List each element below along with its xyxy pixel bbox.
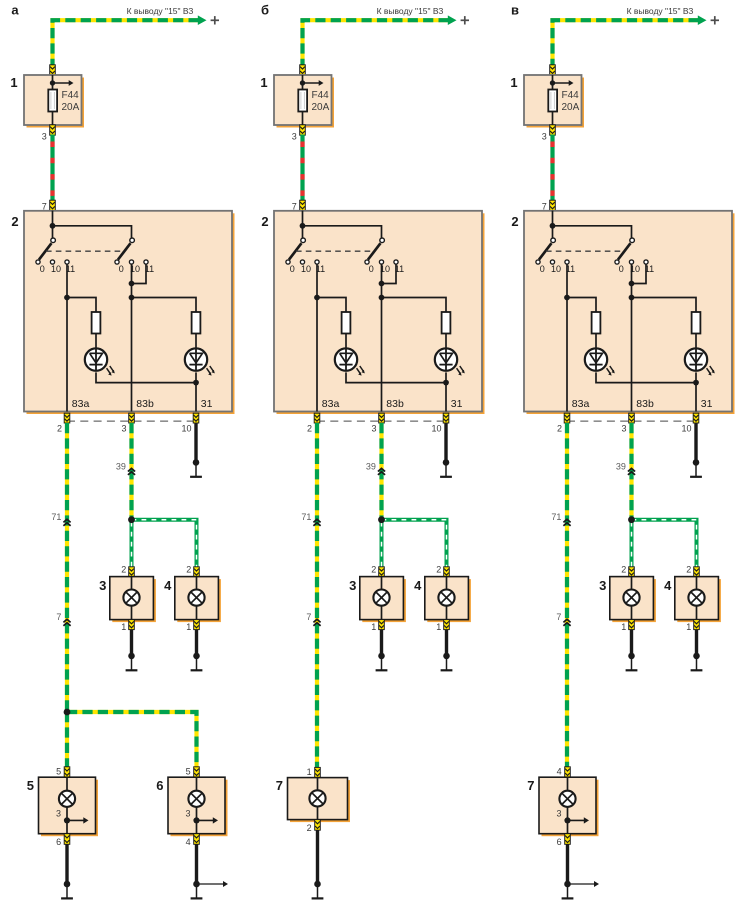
resistor R1 [92, 312, 101, 334]
wire junction to resistor R1 [567, 298, 596, 313]
wire to lamp 3 (green/white) [130, 522, 134, 568]
wire LED1 to node 31 [96, 372, 196, 382]
ground wire lamp 4 [445, 630, 448, 656]
lamp 5 bulb [59, 791, 75, 807]
svg-text:1: 1 [436, 622, 441, 632]
switch S2 pivot [630, 238, 635, 243]
wire to lamp 4 (green/white) [632, 520, 697, 568]
lamp box 5 [41, 780, 98, 837]
junction + tap arrow [50, 80, 55, 85]
junction node [50, 223, 56, 229]
node at pin31 wire [443, 380, 449, 386]
lamp 4 bulb [688, 590, 704, 606]
S2 contacts 0 10 11 [365, 260, 369, 264]
wire contact 10 (S2) down [631, 264, 633, 297]
ground lamp 3 [128, 653, 135, 660]
svg-text:3: 3 [56, 809, 61, 819]
switch unit box 2 [27, 213, 235, 414]
svg-text:7: 7 [42, 201, 47, 211]
svg-text:1: 1 [260, 75, 267, 90]
arrowhead to +15 [448, 15, 457, 25]
lamp box 3 [112, 579, 156, 622]
tap 3 of lamp 6 [193, 817, 199, 823]
svg-text:20A: 20A [562, 102, 580, 113]
wire through lamp 3 [131, 577, 133, 620]
svg-text:3: 3 [292, 132, 297, 142]
wire R1 to LED1 [345, 334, 347, 350]
svg-text:б: б [261, 3, 269, 18]
lamp box 7 [542, 780, 599, 837]
lamp 7 bulb [559, 791, 575, 807]
svg-text:1: 1 [121, 622, 126, 632]
wire to second switch [303, 226, 382, 243]
svg-text:3: 3 [185, 809, 190, 819]
junction to lamps 3/4 [628, 516, 635, 523]
ground wire lamp 3 [130, 630, 133, 656]
wire junction to resistor R2 [132, 298, 197, 313]
svg-text:4: 4 [557, 767, 562, 777]
lamp box 6 [171, 780, 228, 837]
junction S2-11 to S2-10 [629, 281, 635, 287]
svg-text:71: 71 [51, 512, 61, 522]
fuse F44 20A [48, 90, 57, 112]
plus terminal [461, 19, 469, 21]
wire contact 10 (S2) down [131, 264, 133, 297]
junction S2-11 to S2-10 [379, 281, 385, 287]
pin 83a [314, 413, 320, 423]
wire fuse to switch (green/red) [50, 135, 54, 202]
lamp 4 bulb [188, 590, 204, 606]
junction to lamps 3/4 [378, 516, 385, 523]
wire through lamp 5 [66, 777, 68, 834]
mechanical link (dashed) [546, 250, 623, 252]
S1 contacts 0 10 11 [536, 260, 540, 264]
switch S2 pivot [380, 238, 385, 243]
svg-text:4: 4 [414, 578, 422, 593]
svg-text:20A: 20A [312, 102, 330, 113]
pin (top of fuse box) [550, 65, 556, 75]
lamp box 3 [612, 579, 656, 622]
svg-text:10: 10 [51, 264, 61, 274]
wire 71 from pin 2 (yellow/green) [315, 423, 319, 768]
switch S1 lever [289, 243, 302, 259]
svg-text:3: 3 [42, 132, 47, 142]
node at pin31 wire [693, 380, 699, 386]
ground wire lamp 7 [566, 844, 569, 884]
S1 contacts 0 10 11 [36, 260, 40, 264]
plus terminal [711, 19, 719, 21]
LED1 indicator [585, 348, 607, 370]
junction to lamps 3/4 [128, 516, 135, 523]
ground wire lamp 5 [65, 844, 68, 884]
switch unit box 2 [527, 213, 735, 414]
svg-text:1: 1 [371, 622, 376, 632]
svg-text:10: 10 [551, 264, 561, 274]
svg-text:0: 0 [619, 264, 624, 274]
wire fuse to switch (green/red) [550, 135, 554, 202]
svg-text:1: 1 [10, 75, 17, 90]
pin 6 of lamp 7 [565, 834, 571, 845]
ground lamp 4 [693, 653, 700, 660]
svg-text:71: 71 [551, 512, 561, 522]
pin 2 of lamp 4 [194, 567, 200, 577]
wire fuse to pin 3 [302, 112, 304, 126]
svg-text:7: 7 [56, 612, 61, 622]
wire through lamp 4 [696, 577, 698, 620]
svg-text:2: 2 [686, 565, 691, 575]
svg-text:2: 2 [57, 423, 62, 433]
svg-text:7: 7 [556, 612, 561, 622]
svg-text:3: 3 [371, 423, 376, 433]
ground point [193, 459, 200, 466]
wire R2 to LED2 [195, 334, 197, 350]
pin (top of fuse box) [300, 65, 306, 75]
wire LED1 to node 31 [596, 372, 696, 382]
ground lamp 6 [193, 881, 200, 888]
wire through lamp 6 [196, 777, 198, 834]
wire pin7 to junction [52, 211, 54, 243]
svg-text:1: 1 [686, 622, 691, 632]
svg-text:3: 3 [349, 578, 356, 593]
LED2 indicator [185, 348, 207, 370]
junction on 83a wire [64, 295, 70, 301]
svg-text:39: 39 [616, 462, 626, 472]
svg-text:31: 31 [451, 398, 463, 410]
svg-text:71: 71 [301, 512, 311, 522]
svg-text:2: 2 [307, 423, 312, 433]
svg-text:К выводу "15" ВЗ: К выводу "15" ВЗ [627, 6, 694, 16]
ground wire lamp 7 [316, 830, 319, 884]
wire inside fuse box [302, 75, 304, 90]
wire fuse to switch (green/red) [300, 135, 304, 202]
pin 83b [629, 413, 635, 423]
svg-text:83a: 83a [72, 398, 90, 410]
pin 2 of lamp 7 [315, 820, 321, 831]
svg-text:в: в [511, 3, 519, 18]
svg-text:10: 10 [181, 423, 191, 433]
lamp box 3 [362, 579, 406, 622]
lamp 6 bulb [188, 791, 204, 807]
wire to lamp 3 (green/white) [380, 522, 384, 568]
svg-text:F44: F44 [62, 90, 80, 101]
pin 83b [379, 413, 385, 423]
pin 7 of switch box [300, 200, 306, 210]
junction to lamps 5/6 [64, 709, 71, 716]
wire R1 to LED1 [95, 334, 97, 350]
resistor R2 [442, 312, 451, 334]
junction node [300, 223, 306, 229]
pin 4 of lamp 7 [565, 767, 571, 777]
wire R1 to LED1 [595, 334, 597, 350]
ground wire from pin 10 [694, 423, 697, 462]
svg-text:3: 3 [621, 423, 626, 433]
svg-text:5: 5 [186, 767, 191, 777]
switch S1 lever [39, 243, 52, 259]
ground point [443, 459, 450, 466]
junction + tap arrow [300, 80, 305, 85]
switch S1 lever [539, 243, 552, 259]
wire 39 from pin 3 (yellow/green) [629, 423, 633, 520]
wire to lamp 6 (yellow/green) [67, 712, 197, 768]
svg-text:7: 7 [306, 612, 311, 622]
pin 2 of lamp 4 [694, 567, 700, 577]
ground lamp 5 [64, 881, 71, 888]
svg-text:4: 4 [164, 578, 172, 593]
ground lamp 3 [378, 653, 385, 660]
wire 39 from pin 3 (yellow/green) [379, 423, 383, 520]
svg-text:3: 3 [542, 132, 547, 142]
wire contact 11 down to 83a [66, 264, 68, 411]
pin 1 of lamp 3 [129, 620, 135, 630]
switch S2 lever [368, 243, 381, 259]
svg-text:31: 31 [201, 398, 213, 410]
resistor R2 [192, 312, 201, 334]
switch S2 pivot [130, 238, 135, 243]
wire contact 11 (S2) down [382, 264, 397, 283]
svg-text:6: 6 [557, 837, 562, 847]
wire to +15 supply (yellow/green) [553, 20, 699, 65]
svg-text:3: 3 [556, 809, 561, 819]
switch S2 lever [118, 243, 131, 259]
pin (top of fuse box) [50, 65, 56, 75]
svg-text:39: 39 [116, 462, 126, 472]
wire to +15 supply (yellow/green) [53, 20, 199, 65]
svg-text:1: 1 [621, 622, 626, 632]
wire contact 10 (S2) down [381, 264, 383, 297]
wire to lamp 4 (green/white) [132, 520, 197, 568]
pin 3 of fuse box [50, 125, 56, 135]
wire pin7 to junction [552, 211, 554, 243]
svg-text:2: 2 [621, 565, 626, 575]
pin 6 of lamp 5 [64, 834, 70, 845]
ground lamp 7 [314, 881, 321, 888]
wire 83b down [131, 298, 133, 412]
pin 1 of lamp 3 [379, 620, 385, 630]
svg-text:0: 0 [369, 264, 374, 274]
ground wire from pin 10 [444, 423, 447, 462]
resistor R1 [592, 312, 601, 334]
svg-text:2: 2 [186, 565, 191, 575]
wire junction to resistor R2 [382, 298, 447, 313]
resistor R1 [342, 312, 351, 334]
lamp 7 bulb [309, 790, 325, 806]
pin 1 of lamp 4 [194, 620, 200, 630]
S2 contacts 0 10 11 [115, 260, 119, 264]
svg-text:3: 3 [121, 423, 126, 433]
svg-text:6: 6 [156, 778, 163, 793]
junction S2-11 to S2-10 [129, 281, 135, 287]
lamp box 4 [177, 579, 221, 622]
svg-text:2: 2 [557, 423, 562, 433]
svg-text:83b: 83b [636, 398, 654, 410]
switch S1 pivot [51, 238, 56, 243]
S1 contacts 0 10 11 [286, 260, 290, 264]
LED1 indicator [85, 348, 107, 370]
wire contact 11 down to 83a [316, 264, 318, 411]
svg-text:31: 31 [701, 398, 713, 410]
pin 5 of lamp 5 [64, 767, 70, 777]
svg-text:7: 7 [542, 201, 547, 211]
connector dashed line [567, 420, 696, 422]
lamp 3 bulb [123, 590, 139, 606]
wire through lamp 4 [196, 577, 198, 620]
fuse box 1 [527, 78, 585, 128]
wire junction to resistor R1 [67, 298, 96, 313]
switch S1 pivot [301, 238, 306, 243]
wire LED2 to pin 31 [445, 372, 447, 411]
lamp 4 bulb [438, 590, 454, 606]
pin 31 [693, 413, 699, 423]
svg-text:5: 5 [56, 767, 61, 777]
junction on 83a wire [564, 295, 570, 301]
connector dashed line [317, 420, 446, 422]
pin 2 of lamp 3 [629, 567, 635, 577]
ground lamp 4 [443, 653, 450, 660]
wire through lamp 3 [631, 577, 633, 620]
ground wire lamp 4 [695, 630, 698, 656]
lamp 3 bulb [373, 590, 389, 606]
wire fuse to pin 3 [552, 112, 554, 126]
wire LED2 to pin 31 [695, 372, 697, 411]
svg-text:39: 39 [366, 462, 376, 472]
svg-text:0: 0 [540, 264, 545, 274]
ground point [693, 459, 700, 466]
pin 7 of switch box [50, 200, 56, 210]
LED2 indicator [435, 348, 457, 370]
svg-text:К выводу "15" ВЗ: К выводу "15" ВЗ [377, 6, 444, 16]
mechanical link (dashed) [46, 250, 123, 252]
wire through lamp 4 [446, 577, 448, 620]
plus terminal [211, 19, 219, 21]
wire inside fuse box [552, 75, 554, 90]
svg-text:5: 5 [27, 778, 34, 793]
pin 83b [129, 413, 135, 423]
svg-text:3: 3 [599, 578, 606, 593]
svg-text:1: 1 [307, 767, 312, 777]
ground wire from pin 10 [194, 423, 197, 462]
svg-text:0: 0 [119, 264, 124, 274]
arrowhead to +15 [198, 15, 207, 25]
svg-text:а: а [11, 3, 19, 18]
svg-text:2: 2 [436, 565, 441, 575]
wire to second switch [553, 226, 632, 243]
svg-text:1: 1 [510, 75, 517, 90]
lamp box 4 [677, 579, 721, 622]
svg-text:20A: 20A [62, 102, 80, 113]
junction on 83b wire [629, 295, 635, 301]
svg-text:2: 2 [371, 565, 376, 575]
svg-text:К выводу "15" ВЗ: К выводу "15" ВЗ [127, 6, 194, 16]
wire fuse to pin 3 [52, 112, 54, 126]
svg-text:83a: 83a [572, 398, 590, 410]
wire LED2 to pin 31 [195, 372, 197, 411]
fuse F44 20A [548, 90, 557, 112]
tap 3 of lamp 7 [564, 817, 570, 823]
svg-text:6: 6 [56, 837, 61, 847]
svg-text:0: 0 [290, 264, 295, 274]
wire 71 from pin 2 (yellow/green) [565, 423, 569, 768]
ground lamp 7 [564, 881, 571, 888]
resistor R2 [692, 312, 701, 334]
pin 1 of lamp 7 [315, 767, 321, 777]
arrowhead to +15 [698, 15, 707, 25]
junction node [550, 223, 556, 229]
connector dashed line [67, 420, 196, 422]
svg-text:10: 10 [681, 423, 691, 433]
pin 2 of lamp 4 [444, 567, 450, 577]
wire 39 from pin 3 (yellow/green) [129, 423, 133, 520]
pin 7 of switch box [550, 200, 556, 210]
wire 71 from pin 2 (yellow/green) [65, 423, 69, 712]
svg-text:7: 7 [527, 778, 534, 793]
pin 83a [564, 413, 570, 423]
svg-text:4: 4 [664, 578, 672, 593]
svg-text:2: 2 [121, 565, 126, 575]
pin 1 of lamp 3 [629, 620, 635, 630]
wire R2 to LED2 [445, 334, 447, 350]
fuse box 1 [27, 78, 85, 128]
lamp box 7 [290, 780, 350, 822]
pin 1 of lamp 4 [694, 620, 700, 630]
switch S2 lever [618, 243, 631, 259]
S2 contacts 0 10 11 [615, 260, 619, 264]
lamp box 4 [427, 579, 471, 622]
wire contact 11 down to 83a [566, 264, 568, 411]
wire through lamp 7 [567, 777, 569, 834]
wire R2 to LED2 [695, 334, 697, 350]
wire junction to resistor R2 [632, 298, 697, 313]
wire 83b down [381, 298, 383, 412]
svg-text:F44: F44 [312, 90, 330, 101]
svg-text:7: 7 [292, 201, 297, 211]
wire 83b down [631, 298, 633, 412]
svg-text:10: 10 [301, 264, 311, 274]
switch unit box 2 [277, 213, 485, 414]
svg-text:2: 2 [511, 214, 518, 229]
junction on 83b wire [379, 295, 385, 301]
ground lamp 4 [193, 653, 200, 660]
svg-text:F44: F44 [562, 90, 580, 101]
svg-text:2: 2 [307, 823, 312, 833]
svg-text:2: 2 [11, 214, 18, 229]
wire to lamp 5 (yellow/green) [65, 712, 69, 768]
wire inside fuse box [52, 75, 54, 90]
svg-text:83b: 83b [136, 398, 154, 410]
pin 2 of lamp 3 [129, 567, 135, 577]
wire LED1 to node 31 [346, 372, 446, 382]
svg-text:83b: 83b [386, 398, 404, 410]
mechanical link (dashed) [296, 250, 373, 252]
pin 1 of lamp 4 [444, 620, 450, 630]
wire contact 11 (S2) down [132, 264, 147, 283]
wire to +15 supply (yellow/green) [303, 20, 449, 65]
pin 4 of lamp 6 [194, 834, 200, 845]
pin 31 [443, 413, 449, 423]
junction on 83b wire [129, 295, 135, 301]
pin 3 of fuse box [550, 125, 556, 135]
pin 2 of lamp 3 [379, 567, 385, 577]
pin 3 of fuse box [300, 125, 306, 135]
pin 5 of lamp 6 [194, 767, 200, 777]
ground wire lamp 6 [195, 844, 198, 884]
fuse F44 20A [298, 90, 307, 112]
pin 31 [193, 413, 199, 423]
lamp 3 bulb [623, 590, 639, 606]
ground wire lamp 3 [630, 630, 633, 656]
ground lamp 3 [628, 653, 635, 660]
wire through lamp 3 [381, 577, 383, 620]
svg-text:2: 2 [261, 214, 268, 229]
